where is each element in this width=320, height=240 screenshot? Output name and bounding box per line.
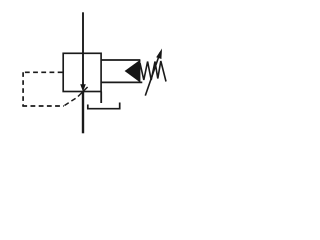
adjustment arrow shaft (diagonal through spring) — [145, 53, 160, 96]
tank symbol (open top) — [88, 103, 120, 109]
valve body box — [63, 53, 101, 91]
spring chamber top line — [101, 59, 140, 61]
pilot line dashed: left vertical — [22, 72, 24, 106]
spring seat triangle (filled, points left) — [125, 60, 141, 83]
pilot passage X crossing at arrow tip — [78, 87, 88, 97]
spring chamber bottom line — [101, 81, 142, 83]
drain line (right edge extension below box) — [100, 92, 102, 104]
pilot line dashed: top horizontal — [22, 71, 62, 73]
pilot line dashed: diagonal to arrow tip — [65, 97, 78, 105]
outlet line to tank (below valve) — [82, 92, 84, 134]
pilot line dashed: bottom horizontal — [22, 105, 64, 107]
flow arrowhead inside valve (points down) — [80, 84, 86, 91]
inlet line (top vertical pressure line) — [82, 12, 84, 85]
spring zigzag — [140, 61, 166, 82]
adjustment arrowhead (points up-right) — [156, 49, 162, 60]
